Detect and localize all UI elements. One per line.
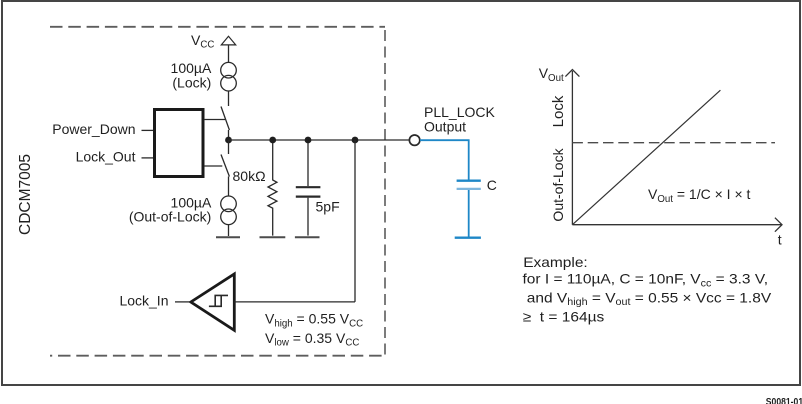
dashed chip boundary (top, right, bottom edges): [50, 26, 385, 28]
wire current source to switch S1: [228, 91, 230, 106]
graph dashed threshold line: [572, 142, 775, 144]
svg-text:Out-of-Lock: Out-of-Lock: [550, 147, 566, 221]
capacitor C (external, blue): [457, 180, 481, 182]
comparator U2 (Schmitt buffer): [191, 274, 235, 330]
wire Lock_Out to block: [142, 157, 154, 159]
svg-text:C: C: [487, 177, 497, 193]
svg-text:for I = 110µA, C = 10nF, Vcc =: for I = 110µA, C = 10nF, Vcc = 3.3 V,: [523, 272, 769, 289]
wire Lock_In to comparator: [175, 301, 190, 303]
wire switch S1 to node: [228, 130, 230, 140]
svg-text:Lock: Lock: [550, 95, 567, 127]
capacitor C1 5pF: [307, 143, 309, 186]
Vcc arrow symbol: [221, 36, 235, 45]
svg-text:VOut: VOut: [539, 65, 564, 84]
svg-text:Vhigh = 0.55 VCC: Vhigh = 0.55 VCC: [265, 311, 363, 330]
svg-text:Output: Output: [424, 118, 466, 134]
pin circle PLL_LOCK: [409, 135, 419, 145]
svg-text:VCC: VCC: [191, 32, 214, 51]
svg-text:80kΩ: 80kΩ: [233, 168, 266, 184]
svg-text:S0081-01: S0081-01: [766, 396, 802, 404]
current source I2 100uA (Out-of-Lock): [221, 196, 237, 212]
svg-text:Lock_In: Lock_In: [119, 293, 168, 309]
svg-text:CDCM7005: CDCM7005: [17, 154, 34, 235]
svg-text:t: t: [778, 232, 782, 248]
graph y-axis: [571, 71, 573, 225]
ground (capacitor C1): [295, 236, 320, 238]
wire block to switch S2: [204, 165, 222, 167]
switch S1 blade: [221, 107, 229, 131]
wire block to switch S1: [204, 119, 225, 121]
wire current source I2 to ground: [228, 225, 230, 236]
svg-text:Power_Down: Power_Down: [52, 121, 135, 137]
svg-text:Example:: Example:: [523, 255, 588, 270]
hysteresis symbol: [209, 295, 228, 306]
wire (blue) pin to external capacitor: [420, 140, 469, 179]
ground (current source I2): [216, 236, 240, 238]
graph x-axis: [572, 224, 781, 226]
current source I1 100uA (Lock): [221, 62, 237, 78]
node B junction dot (resistor tap): [269, 137, 276, 144]
ground (resistor R1): [260, 236, 286, 238]
main output wire: [229, 139, 410, 141]
svg-text:5pF: 5pF: [316, 199, 340, 215]
switch S2 blade: [221, 155, 229, 177]
node C junction dot (capacitor tap): [305, 137, 312, 144]
graph ramp line: [572, 90, 720, 225]
wire node D down to comparator output: [354, 140, 356, 302]
svg-text:and Vhigh = Vout = 0.55 × Vcc: and Vhigh = Vout = 0.55 × Vcc = 1.8V: [523, 291, 772, 308]
wire node to switch S2: [228, 140, 230, 154]
node A junction dot: [225, 137, 232, 144]
svg-text:Vlow = 0.35 VCC: Vlow = 0.35 VCC: [265, 330, 359, 349]
svg-text:100µA: 100µA: [171, 60, 212, 76]
svg-text:Lock_Out: Lock_Out: [76, 149, 136, 165]
resistor R1 80k: [268, 143, 277, 236]
wire Vcc to current source: [228, 45, 230, 63]
node D junction dot (feedback tap): [352, 137, 359, 144]
svg-text:(Out-of-Lock): (Out-of-Lock): [129, 209, 211, 225]
wire comparator output: [234, 301, 355, 303]
wire Power_Down to block: [142, 129, 154, 131]
example text block: [523, 255, 772, 325]
svg-text:(Lock): (Lock): [172, 75, 211, 91]
svg-text:VOut = 1/C × I × t: VOut = 1/C × I × t: [648, 186, 751, 205]
control block U1: [155, 110, 204, 177]
svg-text:≥ t = 164µs: ≥ t = 164µs: [523, 310, 605, 325]
ground (external capacitor, blue): [455, 237, 481, 239]
wire switch S2 to current source I2: [228, 177, 230, 197]
